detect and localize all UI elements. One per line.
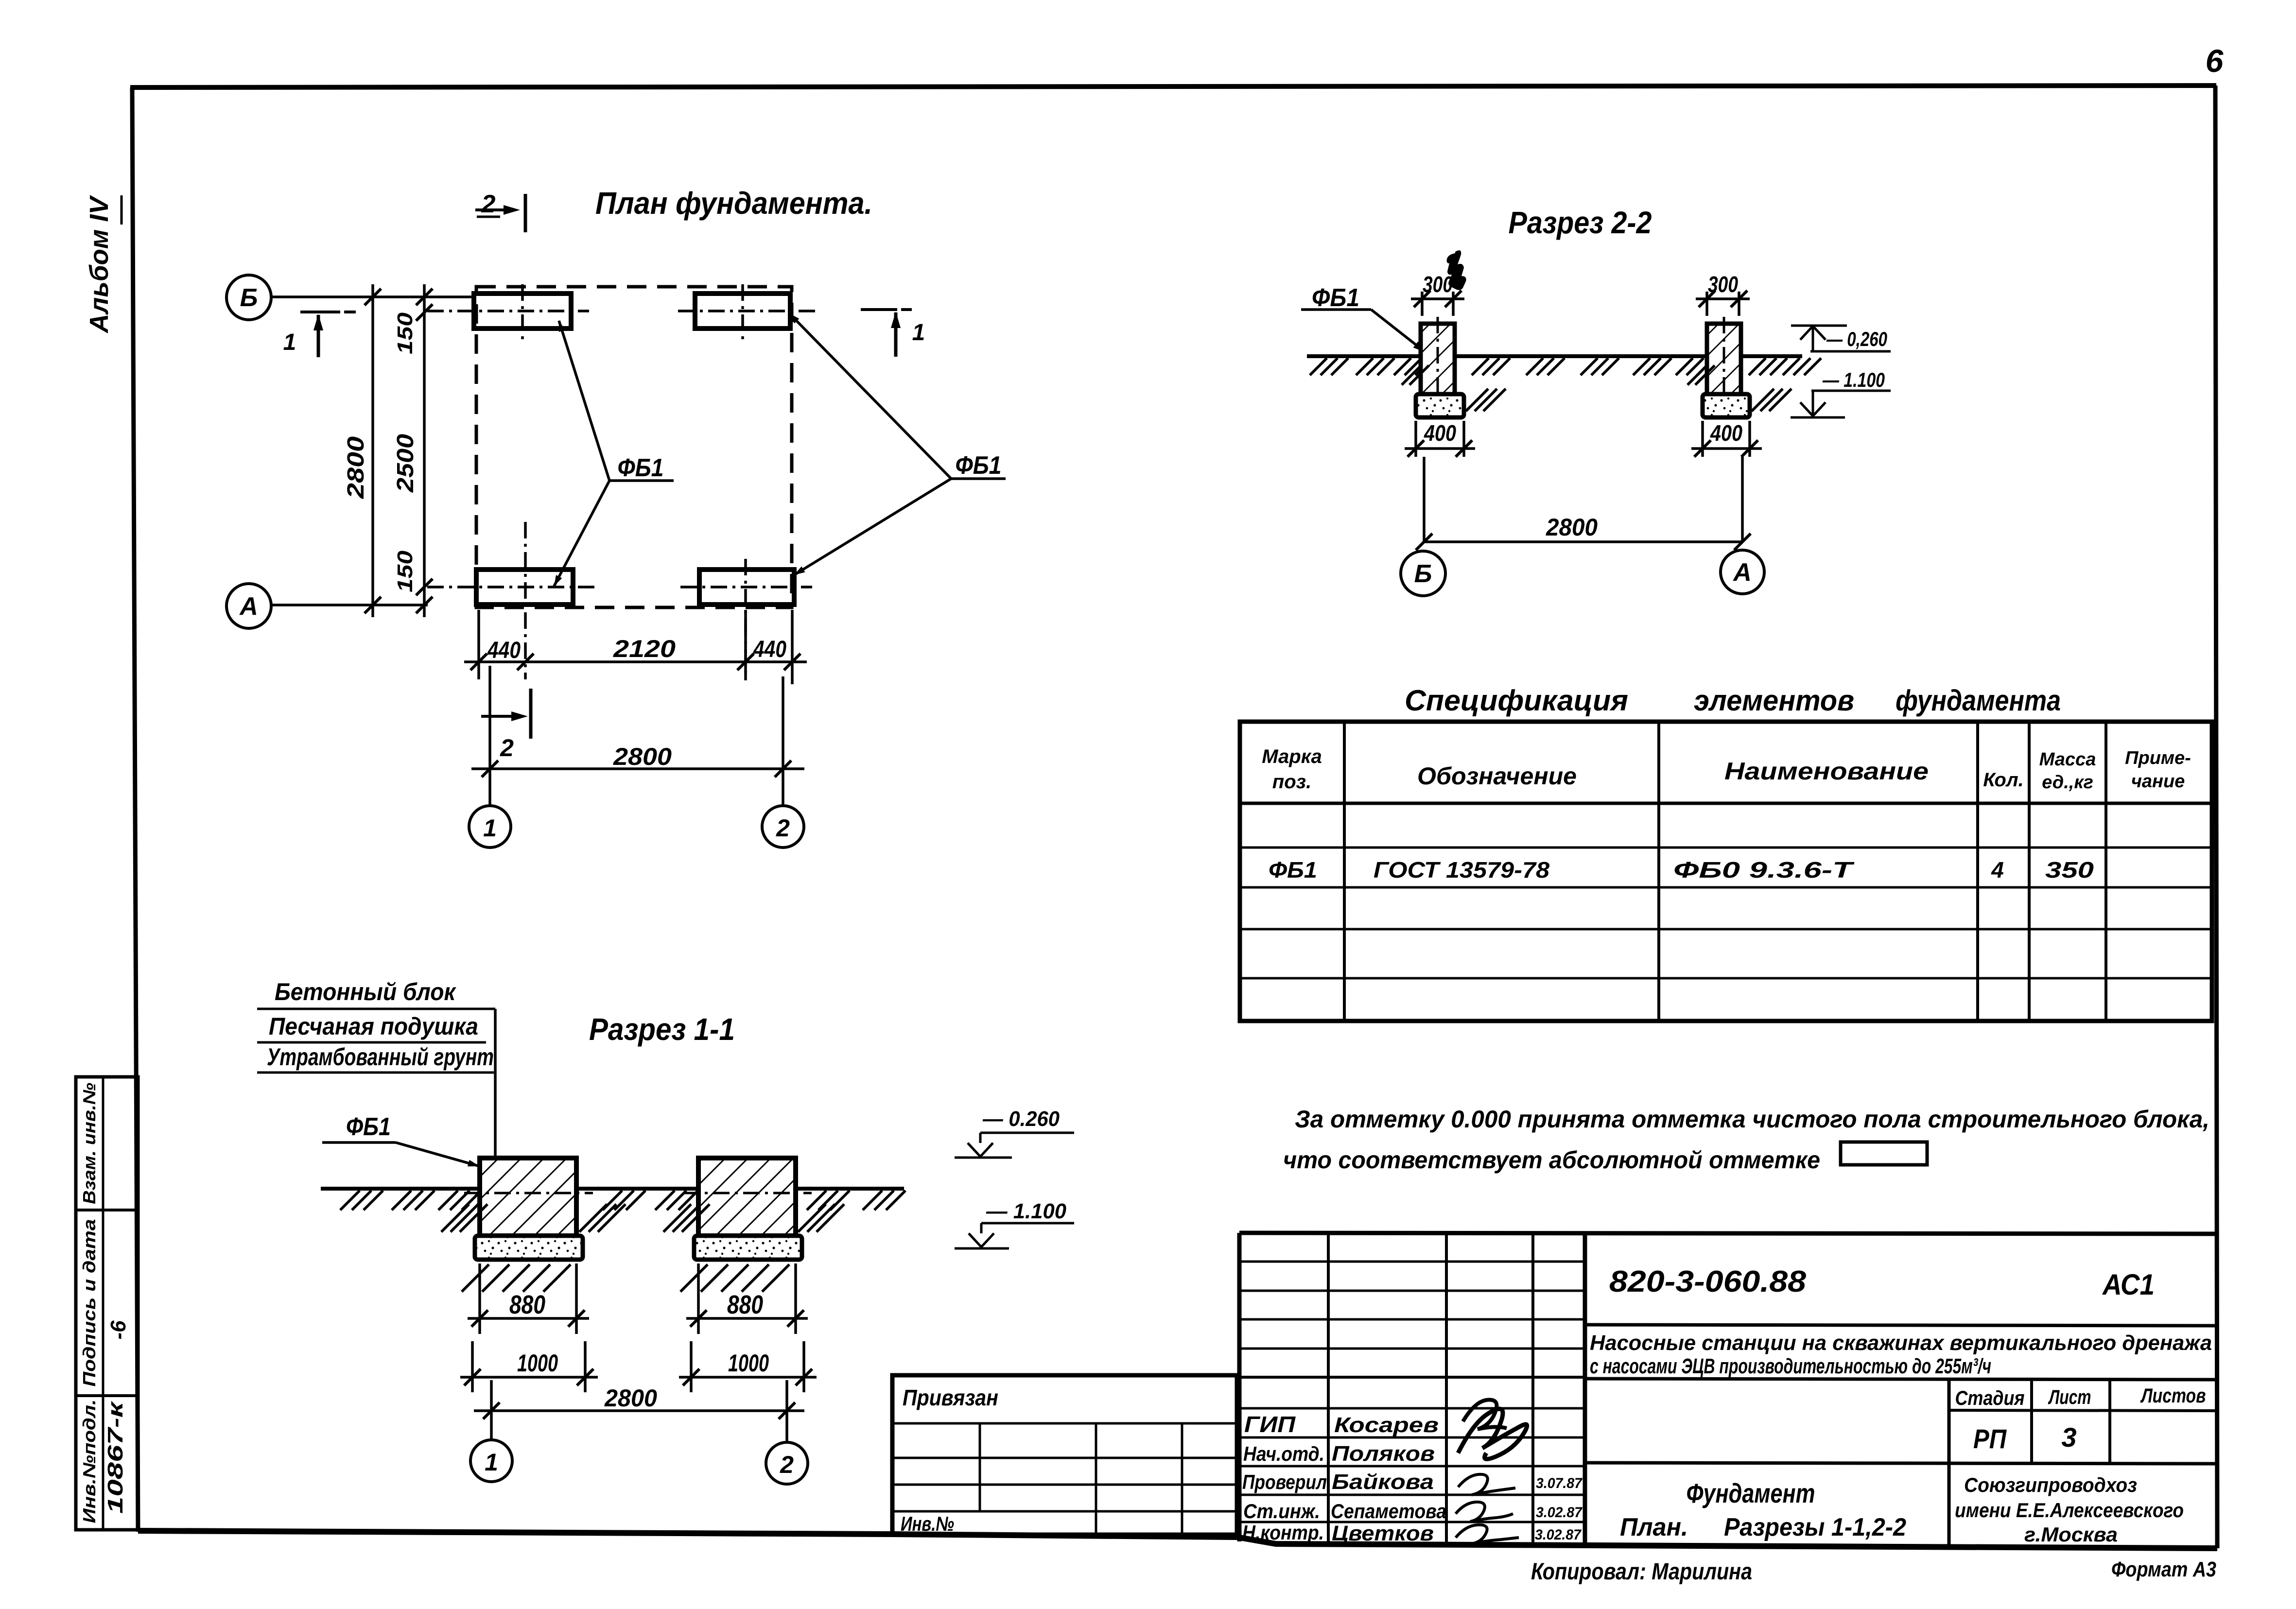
sand pad left (section 2-2) <box>1416 394 1464 417</box>
doc code АС1 <box>2102 1268 2155 1301</box>
svg-text:2120: 2120 <box>613 635 676 662</box>
svg-text:3: 3 <box>2061 1422 2076 1453</box>
ink smudge artifact <box>1447 250 1466 290</box>
svg-text:г.Москва: г.Москва <box>2024 1523 2118 1546</box>
svg-text:фундамента: фундамента <box>1896 684 2061 717</box>
svg-text:чание: чание <box>2131 771 2185 792</box>
label Подпись и дата <box>79 1219 99 1387</box>
elevation mark -0,260 (section 2-2) <box>1791 326 1891 351</box>
section cut marker 1 (right) <box>861 310 925 357</box>
svg-text:2800: 2800 <box>613 743 672 770</box>
svg-text:Н.контр.: Н.контр. <box>1242 1521 1324 1544</box>
ground line (section 1-1) <box>321 1187 904 1191</box>
centerline top row (dash-dot) <box>427 310 816 312</box>
svg-text:Копировал: Марилина: Копировал: Марилина <box>1531 1559 1752 1585</box>
svg-text:ФБ1: ФБ1 <box>618 454 664 482</box>
section cut marker 2 (bottom) <box>481 689 531 761</box>
svg-text:Инв.№: Инв.№ <box>901 1512 954 1535</box>
dimension 300 right (section 2-2) <box>1696 272 1750 316</box>
svg-text:ГОСТ 13579-78: ГОСТ 13579-78 <box>1374 857 1549 882</box>
svg-text:ФБ0 9.3.6-Т: ФБ0 9.3.6-Т <box>1673 857 1855 882</box>
svg-text:Песчаная подушка: Песчаная подушка <box>269 1013 478 1040</box>
headers Стадия Лист Листов <box>1955 1384 2206 1409</box>
label ФБ1 (section 1-1) with leader <box>322 1113 480 1166</box>
page number 6 <box>2206 43 2224 79</box>
sheet 3 <box>2061 1422 2076 1453</box>
handwritten 6 in strip <box>106 1320 130 1340</box>
project name line 1 <box>1590 1331 2212 1355</box>
svg-text:2800: 2800 <box>604 1384 657 1412</box>
svg-text:Масса: Масса <box>2039 749 2096 770</box>
label Инв.№ подл. <box>79 1400 99 1523</box>
section cut marker 1 (left) <box>283 312 356 357</box>
org name <box>1955 1473 2184 1546</box>
vertical dimension 2800 (plan) <box>343 284 381 617</box>
column ФБ1 right (section 2-2) <box>1707 317 1741 412</box>
svg-text:150: 150 <box>393 550 417 592</box>
plan dashed foundation outline <box>476 287 792 607</box>
grid axis А (plan) <box>226 584 428 628</box>
svg-text:ед.,кг: ед.,кг <box>2042 772 2093 793</box>
column ФБ1 left (section 2-2) <box>1421 317 1455 412</box>
svg-text:Взам. инв.№: Взам. инв.№ <box>79 1083 99 1204</box>
svg-text:— 1.100: — 1.100 <box>986 1199 1067 1223</box>
elevation mark -0.260 (section 1-1) <box>955 1107 1074 1158</box>
signature table roles <box>1242 1412 1327 1544</box>
dimension 400 left (section 2-2) <box>1405 420 1475 457</box>
sheet title Фундамент <box>1687 1478 1815 1508</box>
block ФБ1 top-left (plan) <box>474 294 571 329</box>
handwritten inventory number 10867-к <box>104 1400 127 1514</box>
svg-text:2: 2 <box>780 1451 794 1478</box>
svg-text:Разрезы 1-1,2-2: Разрезы 1-1,2-2 <box>1724 1513 1906 1541</box>
svg-text:ГИП: ГИП <box>1244 1412 1296 1437</box>
label ФБ1 right (plan) with leaders <box>789 313 1006 575</box>
dimension 1000 left (section 1-1) <box>460 1341 598 1392</box>
axis circle 1 (plan bottom) <box>469 666 511 848</box>
dimension 880 left (section 1-1) <box>468 1263 589 1334</box>
svg-text:4: 4 <box>1991 857 2004 882</box>
svg-text:Нач.отд.: Нач.отд. <box>1243 1442 1324 1465</box>
axis circle 2 (plan bottom) <box>762 676 804 848</box>
section 2-2 title <box>1509 205 1652 240</box>
svg-text:3.02.87: 3.02.87 <box>1536 1505 1583 1521</box>
block ФБ1 right (section 1-1) <box>683 1158 812 1236</box>
svg-text:3.02.87: 3.02.87 <box>1535 1527 1582 1543</box>
svg-text:Фундамент: Фундамент <box>1687 1478 1815 1508</box>
signature dates <box>1535 1475 1583 1543</box>
svg-text:Б: Б <box>240 284 258 312</box>
svg-text:Насосные станции на скважинах: Насосные станции на скважинах вертикальн… <box>1590 1331 2212 1355</box>
svg-text:ФБ1: ФБ1 <box>1269 857 1317 882</box>
svg-text:Разрез 2-2: Разрез 2-2 <box>1509 205 1652 240</box>
svg-text:-6: -6 <box>106 1320 130 1340</box>
svg-text:300: 300 <box>1423 272 1453 297</box>
footer: Копировал <box>1531 1559 1752 1585</box>
vertical centerlines of blocks <box>522 284 746 680</box>
svg-text:Байкова: Байкова <box>1332 1470 1434 1494</box>
label Взам. инв.№ <box>79 1083 99 1204</box>
elevation mark -1.100 (section 2-2) <box>1791 368 1891 417</box>
svg-text:820-3-060.88: 820-3-060.88 <box>1609 1265 1807 1298</box>
axis circle 2 (section 1-1) <box>766 1380 808 1484</box>
spec table data row ФБ1 <box>1269 857 2094 882</box>
svg-text:Листов: Листов <box>2140 1384 2206 1407</box>
svg-text:2: 2 <box>500 734 514 761</box>
svg-text:Наименование: Наименование <box>1724 758 1929 785</box>
svg-text:2500: 2500 <box>393 434 418 493</box>
pit hatching around pads (section 1-1) <box>441 1204 844 1292</box>
centerline bottom row (dash-dot) <box>427 586 812 588</box>
horizontal dimension chain 440/2120/440 (plan) <box>464 610 807 684</box>
svg-text:1: 1 <box>483 814 497 842</box>
rotated margin text: Альбом IV <box>85 195 122 334</box>
dimension 2800 (section 2-2) <box>1416 457 1751 550</box>
svg-text:Косарев: Косарев <box>1334 1413 1439 1437</box>
svg-text:— 0.260: — 0.260 <box>982 1107 1060 1131</box>
sand pad right (section 2-2) <box>1703 394 1750 417</box>
svg-text:За отметку 0.000 принята о: За отметку 0.000 принята отметка чистого… <box>1295 1106 2209 1133</box>
sheet title План. Разрезы 1-1,2-2 <box>1620 1513 1906 1541</box>
svg-text:Привязан: Привязан <box>903 1385 998 1410</box>
svg-text:План фундамента.: План фундамента. <box>595 186 872 221</box>
svg-text:с насосами ЭЦВ производительно: с насосами ЭЦВ производительностью до 25… <box>1590 1354 1991 1378</box>
svg-text:ФБ1: ФБ1 <box>346 1113 391 1141</box>
svg-text:440: 440 <box>753 637 786 662</box>
svg-text:2800: 2800 <box>343 436 369 500</box>
specification table title <box>1405 684 2061 717</box>
ground hatching (section 1-1) <box>340 1191 905 1210</box>
label ФБ1 (section 2-2) with leader <box>1301 284 1426 352</box>
svg-text:3.07.87: 3.07.87 <box>1536 1475 1583 1491</box>
svg-text:Проверил: Проверил <box>1242 1471 1327 1493</box>
plan title: План фундамента. <box>595 186 872 221</box>
svg-text:Обозначение: Обозначение <box>1417 762 1577 790</box>
svg-text:150: 150 <box>393 312 417 354</box>
svg-text:Стадия: Стадия <box>1955 1386 2025 1409</box>
svg-text:350: 350 <box>2045 857 2094 882</box>
svg-text:10867-к: 10867-к <box>104 1400 127 1514</box>
label ФБ1 left (plan) with leaders <box>554 321 674 586</box>
svg-text:880: 880 <box>509 1290 545 1319</box>
svg-text:440: 440 <box>487 638 521 663</box>
svg-text:1: 1 <box>485 1449 498 1476</box>
block ФБ1 left (section 1-1) <box>464 1158 593 1236</box>
svg-text:Приме-: Приме- <box>2125 748 2191 768</box>
svg-text:880: 880 <box>727 1290 763 1319</box>
svg-text:РП: РП <box>1973 1423 2007 1454</box>
svg-text:— 1.100: — 1.100 <box>1822 368 1885 391</box>
svg-text:поз.: поз. <box>1272 771 1311 793</box>
elevation mark -1.100 (section 1-1) <box>955 1199 1074 1248</box>
svg-text:Спецификация: Спецификация <box>1405 684 1628 717</box>
svg-text:Разрез 1-1: Разрез 1-1 <box>589 1012 735 1047</box>
svg-text:АС1: АС1 <box>2102 1268 2155 1301</box>
svg-text:План.: План. <box>1620 1513 1688 1541</box>
vertical dimension chain 150/2500/150 (plan) <box>393 284 433 617</box>
svg-text:Утрамбованный грунт: Утрамбованный грунт <box>267 1043 494 1071</box>
spec table headers <box>1262 746 2191 793</box>
signatures (handwritten squiggles) <box>1456 1400 1527 1543</box>
section cut marker 2 (top) <box>475 190 525 232</box>
dimension 1000 right (section 1-1) <box>679 1341 817 1392</box>
svg-text:1000: 1000 <box>517 1349 558 1377</box>
project name line 2 <box>1590 1354 1991 1378</box>
axis circle А (section 2-2) <box>1721 550 1764 594</box>
dimension 300 left (section 2-2) <box>1411 272 1464 316</box>
svg-text:А: А <box>1732 558 1752 587</box>
footer: Формат А3 <box>2111 1557 2216 1581</box>
note line 2 <box>1283 1146 1820 1174</box>
svg-text:ФБ1: ФБ1 <box>956 451 1002 480</box>
svg-text:что соответствует абсолютной: что соответствует абсолютной отметке <box>1283 1146 1820 1174</box>
svg-text:6: 6 <box>2206 43 2224 79</box>
dimension 2800 (section 1-1) <box>474 1384 804 1419</box>
small table Привязан <box>892 1375 1237 1535</box>
horizontal dimension 2800 (plan) <box>471 743 804 777</box>
dimension 880 right (section 1-1) <box>686 1263 808 1334</box>
svg-text:1: 1 <box>912 320 925 346</box>
svg-text:Б: Б <box>1414 560 1432 588</box>
svg-text:элементов: элементов <box>1694 684 1854 717</box>
section 1-1 title <box>589 1012 735 1047</box>
svg-text:Цветков: Цветков <box>1332 1522 1434 1545</box>
callout labels (section 1-1) <box>257 978 495 1158</box>
svg-text:400: 400 <box>1424 420 1456 446</box>
title block grid <box>1239 1233 2215 1546</box>
doc number 820-3-060.88 <box>1609 1265 1807 1298</box>
signature table names <box>1331 1413 1446 1545</box>
svg-text:— 0,260: — 0,260 <box>1826 328 1887 350</box>
specification table grid <box>1240 722 2212 1021</box>
ground line (section 2-2) <box>1307 354 1802 358</box>
pit hatching beside pads (section 2-2) <box>1402 365 1792 411</box>
ground hatching (section 2-2) <box>1310 358 1821 375</box>
axis circle Б (section 2-2) <box>1401 551 1445 596</box>
svg-text:Союзгипроводхоз: Союзгипроводхоз <box>1964 1473 2137 1496</box>
text Привязан <box>903 1385 998 1410</box>
svg-text:2: 2 <box>481 190 496 218</box>
svg-text:Сепаметова: Сепаметова <box>1331 1500 1446 1522</box>
axis circle 1 (section 1-1) <box>470 1380 512 1482</box>
grid axis Б (plan) <box>226 275 475 320</box>
svg-text:Подпись и дата: Подпись и дата <box>79 1219 99 1387</box>
block ФБ1 bottom-right (plan) <box>699 570 794 605</box>
svg-text:А: А <box>239 592 258 621</box>
svg-text:Лист: Лист <box>2048 1385 2091 1408</box>
svg-text:Формат А3: Формат А3 <box>2111 1557 2216 1581</box>
svg-text:Поляков: Поляков <box>1332 1442 1435 1466</box>
svg-text:Альбом IV: Альбом IV <box>85 195 114 334</box>
block ФБ1 top-right (plan) <box>695 294 790 329</box>
svg-text:Марка: Марка <box>1262 746 1322 767</box>
svg-text:ФБ1: ФБ1 <box>1312 284 1359 312</box>
svg-text:2: 2 <box>776 814 790 842</box>
dimension 400 right (section 2-2) <box>1691 420 1762 457</box>
svg-text:1: 1 <box>283 329 296 355</box>
svg-text:2800: 2800 <box>1546 514 1598 541</box>
left stamp strip boxes <box>76 1077 138 1530</box>
svg-text:Кол.: Кол. <box>1983 769 2024 791</box>
svg-text:Бетонный блок: Бетонный блок <box>275 978 456 1005</box>
block ФБ1 bottom-left (plan) <box>476 570 573 605</box>
empty elevation box in note <box>1841 1142 1927 1165</box>
note line 1 <box>1295 1106 2209 1133</box>
svg-text:имени Е.Е.Алексеевского: имени Е.Е.Алексеевского <box>1955 1499 2184 1522</box>
svg-text:Инв.№подл.: Инв.№подл. <box>79 1400 99 1523</box>
svg-text:Ст.инж.: Ст.инж. <box>1243 1500 1320 1522</box>
stage РП <box>1973 1423 2007 1454</box>
svg-text:1000: 1000 <box>728 1349 769 1377</box>
svg-text:400: 400 <box>1710 420 1742 446</box>
text Инв.№ <box>901 1512 954 1535</box>
sand pad right (section 1-1) <box>694 1236 802 1260</box>
svg-text:300: 300 <box>1708 272 1738 297</box>
sand pad left (section 1-1) <box>475 1236 583 1260</box>
